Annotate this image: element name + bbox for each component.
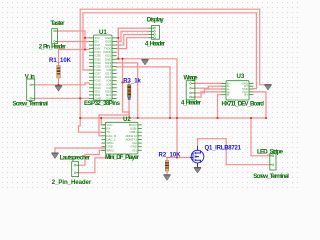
svg-text:4_Header: 4_Header <box>145 41 166 48</box>
svg-text:IO1: IO1 <box>132 148 137 152</box>
svg-text:HX711_DEV_Board: HX711_DEV_Board <box>222 101 265 108</box>
svg-text:4_Header: 4_Header <box>181 99 202 106</box>
svg-text:Lautsprecher: Lautsprecher <box>60 154 91 161</box>
svg-text:ESP32_38Pins: ESP32_38Pins <box>84 100 121 107</box>
svg-text:Display: Display <box>147 17 165 24</box>
svg-text:Screw_Terminal: Screw_Terminal <box>13 101 49 108</box>
svg-text:B+: B+ <box>244 93 248 97</box>
svg-text:Q1_IRLB8721: Q1_IRLB8721 <box>205 146 242 152</box>
svg-text:LED_Stripe: LED_Stripe <box>257 148 284 155</box>
svg-text:U1: U1 <box>99 29 107 36</box>
svg-text:2_Pin_Header: 2_Pin_Header <box>39 44 67 51</box>
svg-text:R3_1k: R3_1k <box>123 78 141 84</box>
svg-text:Screw_Terminal: Screw_Terminal <box>253 173 289 180</box>
svg-text:SPK2: SPK2 <box>106 148 114 152</box>
svg-text:R2_10K: R2_10K <box>159 153 182 159</box>
svg-text:B-: B- <box>227 93 230 97</box>
svg-text:U2: U2 <box>123 116 131 123</box>
svg-text:V_in: V_in <box>25 74 35 81</box>
svg-text:Taster: Taster <box>51 20 66 27</box>
svg-text:R1_10K: R1_10K <box>49 58 72 64</box>
svg-text:U3: U3 <box>237 73 245 80</box>
svg-text:Mini_DF_Player: Mini_DF_Player <box>105 154 140 161</box>
svg-text:2_Pin_Header: 2_Pin_Header <box>52 179 92 186</box>
svg-text:Waage: Waage <box>184 75 199 82</box>
